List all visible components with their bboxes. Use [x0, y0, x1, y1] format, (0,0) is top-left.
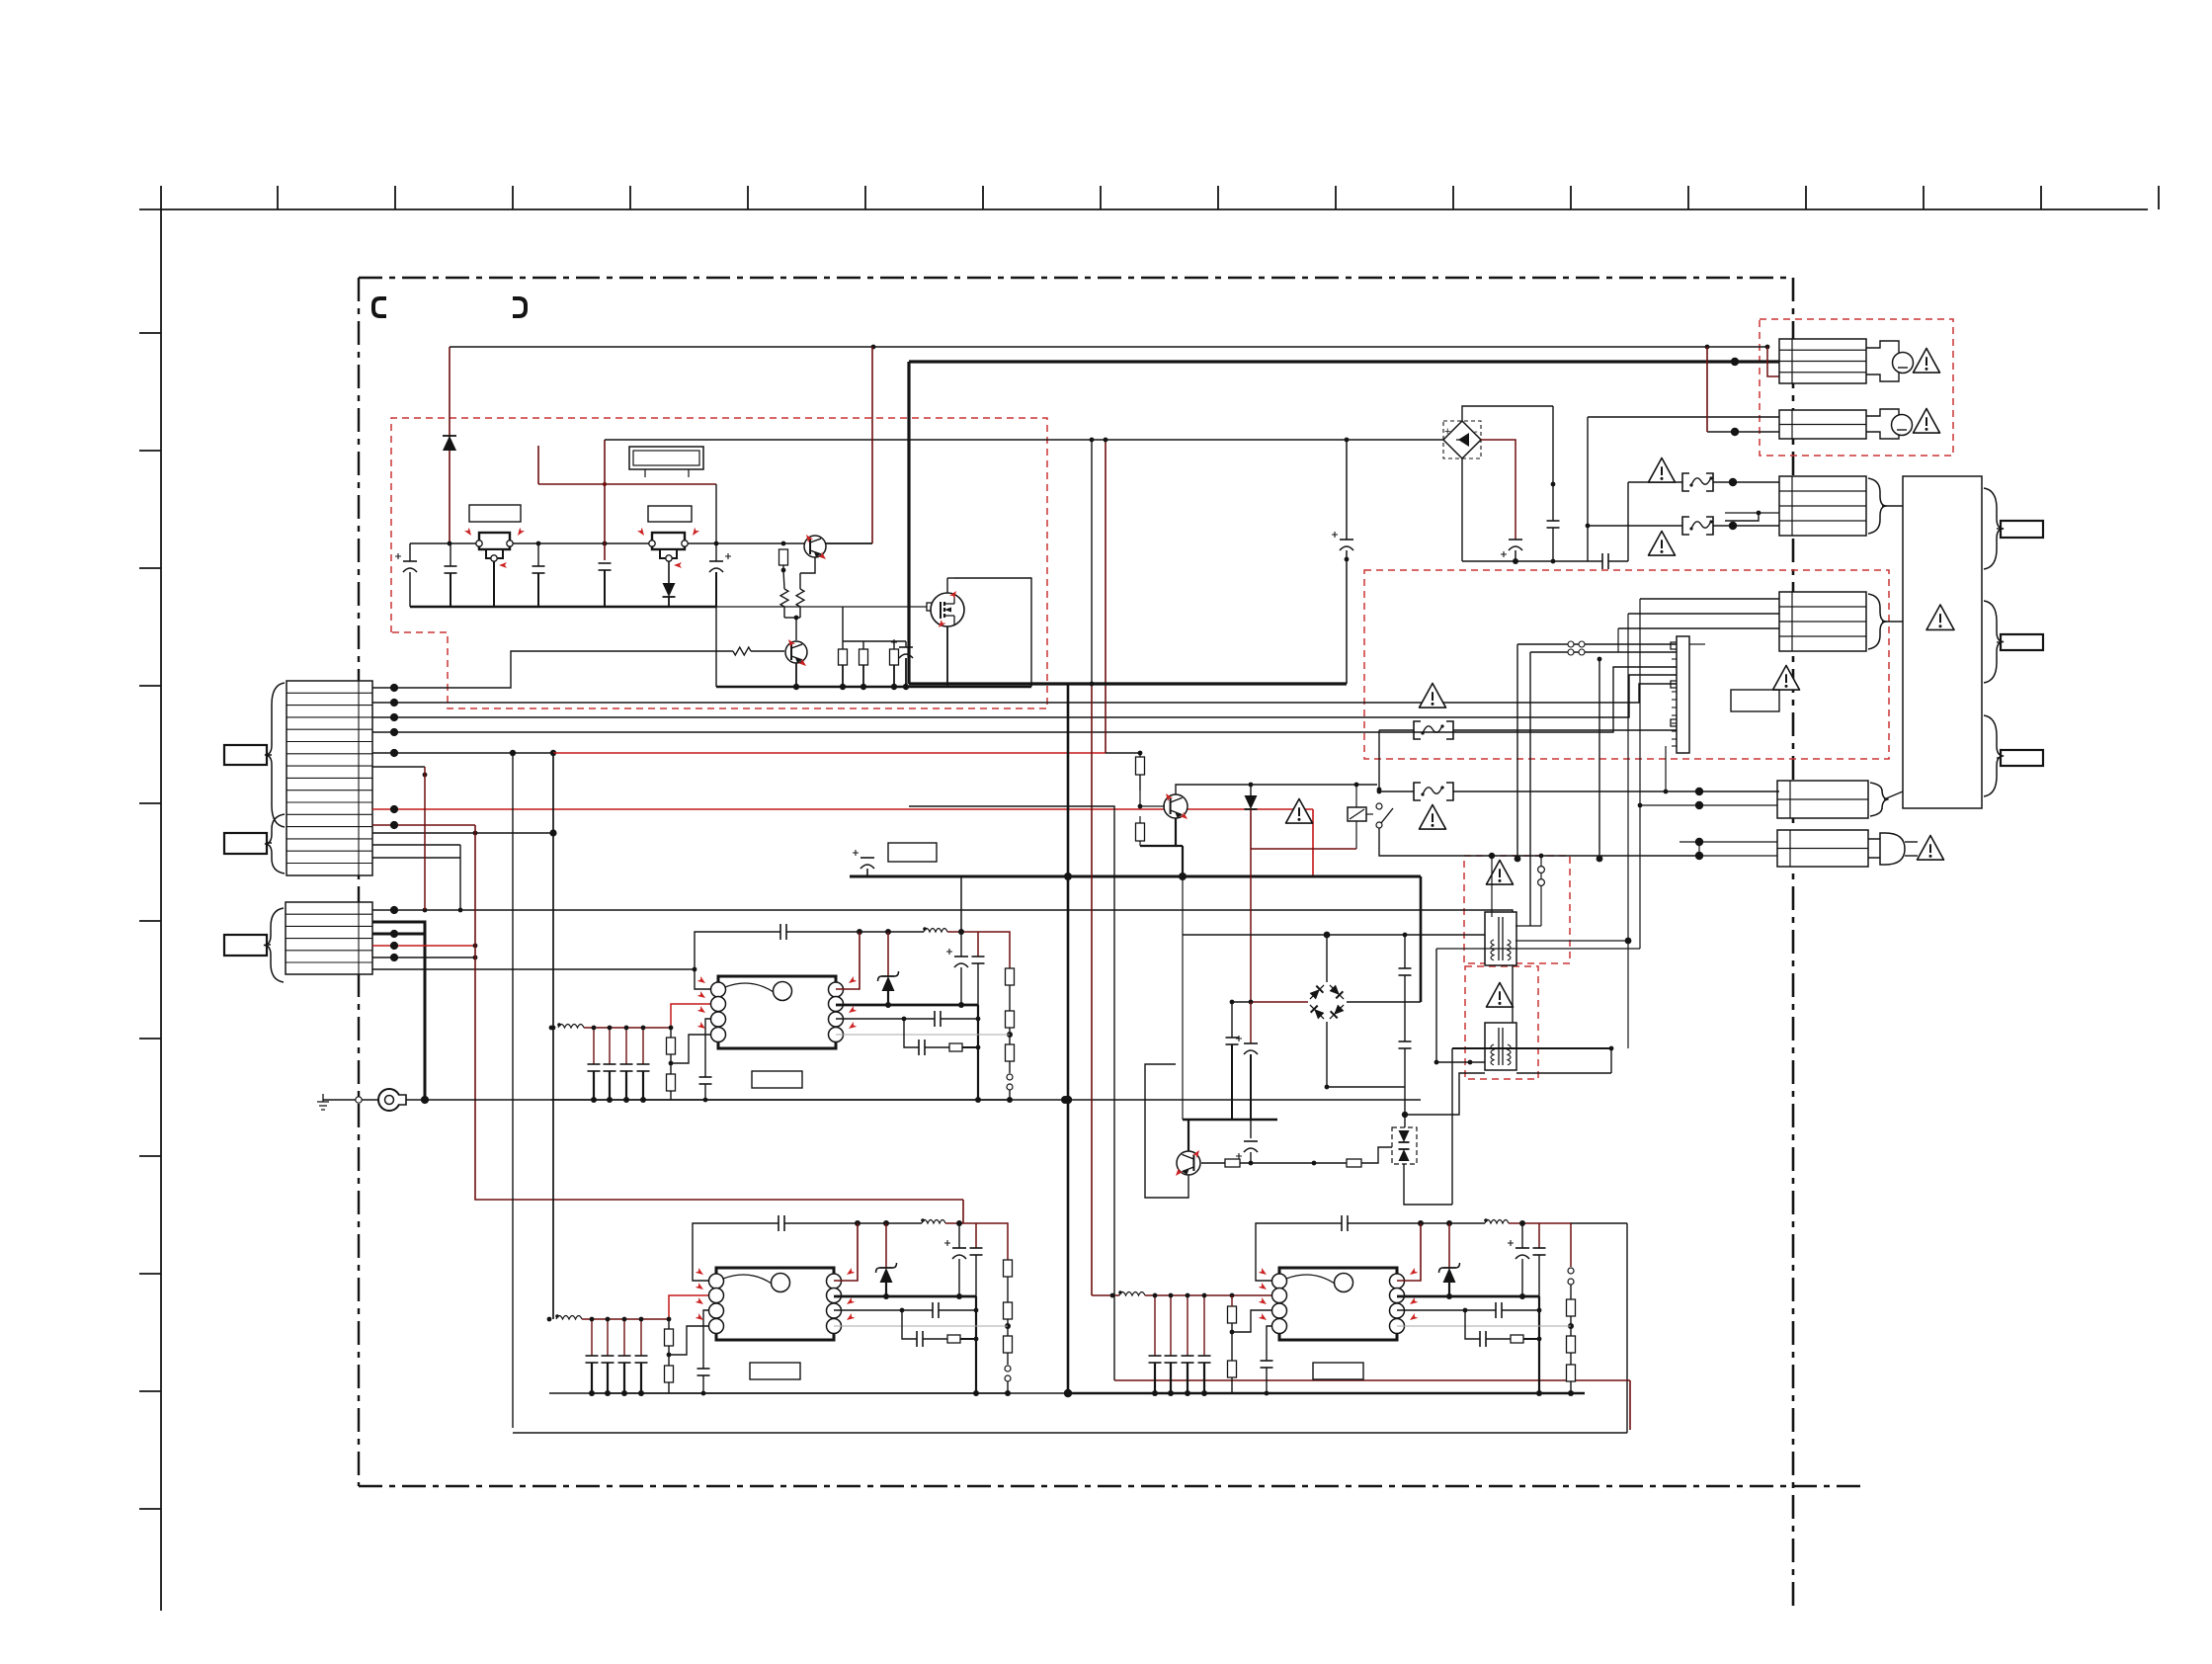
block B zener diode	[885, 1223, 887, 1268]
tab right 1	[2001, 521, 2043, 538]
block C loop capacitor	[1341, 1215, 1343, 1231]
wire thick y887 rail	[850, 875, 1421, 878]
block B filter capacitor bank	[591, 1319, 593, 1356]
block A pin1 loop wire	[695, 932, 780, 989]
wire comb rows J K stubs	[372, 844, 460, 846]
wire barrel2 row1 feed	[1588, 416, 1779, 418]
block A output electrolytic	[960, 932, 962, 957]
block A filter capacitor bank	[593, 1028, 595, 1064]
wire dark red comb row H	[372, 824, 475, 826]
block A input ferrite bead	[557, 1023, 561, 1027]
wire barrel3 to terminal strip	[1882, 505, 1903, 507]
wire barrel4 to terminal strip	[1882, 621, 1903, 623]
wire ground lead	[323, 1099, 378, 1101]
label box in box2	[1731, 690, 1779, 711]
relay coil SW	[1348, 807, 1373, 821]
block C bleeder chain dark red	[1539, 1223, 1571, 1267]
wire Q1 collector dark red riser	[871, 347, 873, 543]
wire red comb2 row 4	[372, 945, 475, 947]
fuse F2 in box2	[1379, 790, 1414, 792]
wire bridge right dark red drop	[1481, 440, 1516, 540]
electrolytic capacitor C1	[409, 543, 411, 561]
block A pin4R sense wire	[836, 1034, 1010, 1036]
block A loop capacitor	[779, 924, 781, 940]
block C zener diode	[1448, 1223, 1450, 1268]
block C resistor divider R lower	[1228, 1361, 1237, 1377]
block B pin3R wire with cap	[834, 1309, 933, 1311]
wire strip bottom drop	[1665, 746, 1667, 791]
resistor pair R2 R3	[780, 589, 788, 607]
tab right 2	[2001, 634, 2043, 650]
block C input ferrite bead	[1118, 1290, 1122, 1294]
connector barrel CN up-right 2	[1779, 410, 1866, 439]
box around MOSFET stage	[954, 578, 1031, 687]
wire riser into T1	[1491, 856, 1493, 917]
wire AC to barrel5 rows	[1699, 855, 1777, 857]
wire switch down and AC run	[1379, 828, 1699, 856]
block A zener diode	[887, 932, 889, 976]
wire barrel3 mid step	[1725, 513, 1759, 521]
wire transformer1 feed y946	[1183, 934, 1485, 936]
warning triangle fuse2	[1649, 532, 1676, 556]
wire bridge2 right to riser	[1347, 1001, 1421, 1003]
label box RY2	[648, 506, 692, 522]
wire top feed y351	[450, 346, 1767, 348]
brace comb upper rows	[265, 683, 285, 827]
electrolytic capacitor C10	[1250, 1120, 1252, 1138]
wire dark red riser x1728	[1706, 347, 1708, 432]
diode D3 protection	[1250, 785, 1252, 795]
wire comb row A to Q3 base	[372, 651, 733, 688]
wire Q4 collector to relay row	[1176, 785, 1377, 794]
brace terminal right 2	[1984, 601, 2004, 683]
block B input ferrite bead	[555, 1314, 559, 1318]
wire fuse row 1	[1628, 481, 1682, 483]
block C output ferrite	[1484, 1218, 1488, 1222]
wire thick riser x920	[907, 362, 910, 684]
wire rail drop from relay rail	[715, 607, 717, 687]
block C pin1 loop wire	[1256, 1223, 1342, 1281]
block B internal ground rail	[549, 1392, 1008, 1394]
wire T1 right bottom pin	[1516, 940, 1628, 942]
label box RY1	[469, 505, 521, 522]
warning triangle relay	[1286, 799, 1313, 824]
block A pin3R wire with cap	[836, 1018, 935, 1020]
red dashed box AC primary middle-right	[1364, 570, 1889, 759]
block C filter capacitor bank	[1154, 1295, 1156, 1356]
svg-text:+: +	[1444, 426, 1450, 438]
block B pin4 wire	[669, 1326, 710, 1355]
wire comb row I	[372, 832, 553, 834]
tab terminal 3	[224, 935, 267, 956]
connector barrel transformer secondary	[1779, 592, 1866, 651]
wire relay RY1 common down	[493, 561, 495, 607]
block A thick output rail	[836, 1004, 978, 1007]
transistor Q3	[785, 641, 807, 663]
block B pin4R sense wire	[834, 1325, 1008, 1327]
connector CN comb lower	[286, 902, 372, 974]
wire block C top rail extension	[1571, 1222, 1627, 1224]
warning triangle near strip	[1773, 666, 1800, 691]
wire strip riser x1536	[1516, 644, 1518, 859]
wire resistor bank top rail	[843, 640, 906, 642]
wire comb row B to connector bundle	[372, 684, 1677, 703]
wire y816 to x1128	[909, 806, 1114, 1380]
block A output ferrite	[923, 927, 927, 931]
open circle on boundary	[356, 1097, 362, 1103]
wire Q5 collector riser	[1182, 876, 1184, 935]
block C dark red riser pin1R	[1397, 1223, 1421, 1281]
wire relay coil drop	[1355, 785, 1357, 807]
wire riser x1081 long thick	[1067, 684, 1070, 1393]
wire red riser to thick rail	[1312, 809, 1314, 876]
wire dark red bridge2 feed	[1250, 849, 1252, 1002]
ground chassis symbol	[317, 1094, 329, 1110]
diode D1 on riser	[449, 347, 451, 543]
wire comb2 row 1 long	[372, 910, 1513, 1029]
wire riser x1454	[1435, 949, 1437, 1062]
block B pin3 wire and cap	[703, 1310, 710, 1369]
wire Q1 emitter down	[800, 557, 815, 573]
wire comb2 row 6	[372, 968, 695, 970]
relay transformer T1	[1485, 912, 1516, 965]
wire Q4 base	[1139, 790, 1141, 806]
wire riser x1105 block C feed	[1091, 440, 1093, 684]
wire Q3 emitter to rail	[795, 663, 797, 687]
crystal filter component	[629, 447, 703, 477]
section title bracket right	[513, 298, 526, 316]
transistor Q5	[1177, 1151, 1200, 1175]
wire thick drop x1197	[1182, 846, 1184, 876]
wire bottom return long	[513, 1432, 1627, 1434]
label box near relay stage	[888, 843, 937, 862]
power transformer terminal block	[1903, 476, 1982, 808]
shared ground rail bottom	[591, 1392, 1065, 1394]
electrolytic capacitor C9	[1250, 1002, 1252, 1043]
capacitor C2	[450, 543, 451, 566]
wire dark red riser x612	[604, 440, 606, 560]
wire bottom rail y568 with series cap	[1462, 560, 1602, 562]
block A pin3 wire and cap	[705, 1019, 712, 1077]
wire riser x519 to bottom return	[512, 753, 514, 1428]
wire MOSFET source down	[946, 626, 948, 687]
pin header strip	[1671, 636, 1689, 753]
gate resistor R8	[927, 603, 941, 611]
wire gate feed riser	[842, 607, 844, 641]
warning triangle below fuse2	[1420, 805, 1446, 830]
block A output cap	[977, 932, 979, 957]
wire comb row C to connector bundle	[372, 675, 1677, 717]
thick ground rail segment bottom right	[1065, 1392, 1585, 1394]
wire red riser x1650	[1629, 1380, 1631, 1430]
plug jack 1	[1866, 341, 1914, 381]
wire red comb row G long	[372, 808, 1313, 810]
block A feed riser to thick rail	[960, 876, 962, 932]
wire fuse row 2	[1588, 525, 1682, 527]
resistor R2 at diac	[1347, 1159, 1361, 1167]
wire thick rail y692	[909, 682, 1347, 685]
electrolytic capacitor C6	[905, 641, 907, 647]
wire T2 secondary top y1061	[1452, 1047, 1611, 1049]
block C top rail	[1348, 1222, 1485, 1224]
wire comb stub row F	[372, 766, 425, 768]
resistor bank R6	[860, 649, 868, 665]
resistor bank R7	[890, 649, 899, 665]
wire comb row D to connector bundle	[372, 667, 1677, 732]
relay transformer T2	[1485, 1023, 1516, 1070]
warning triangle fuse1	[1649, 458, 1676, 483]
wire red hook into barrel1	[1767, 347, 1779, 376]
ruler tick marks top	[278, 186, 2159, 209]
block C output riser down	[1538, 1296, 1540, 1393]
bottom rail of relay group	[410, 606, 716, 609]
warning triangle T2 box	[1487, 983, 1514, 1008]
block C pin3 wire	[1232, 1310, 1273, 1332]
capacitor C4	[599, 562, 612, 564]
block A output riser down	[977, 1005, 979, 1100]
wire barrel2 row2 feed	[1707, 431, 1779, 433]
wire thick riser x1438	[1420, 876, 1423, 1002]
wire riser x1363 with cap	[1346, 440, 1348, 540]
wire box around Q5	[1145, 1064, 1188, 1198]
block C pin4R sense wire	[1397, 1325, 1571, 1327]
wire bundle risers to barrel4	[1639, 599, 1641, 949]
red dashed box relay transformer 2	[1465, 966, 1538, 1079]
MOSFET Q2	[931, 589, 964, 629]
block C resistor divider R upper	[1228, 1306, 1237, 1323]
wire comb row E AC live	[372, 752, 553, 754]
section title bracket left	[373, 298, 386, 316]
wire bridge feed from x612	[605, 439, 1443, 441]
ring terminal ground lug	[378, 1089, 400, 1111]
resistor R1 at Q1 base	[779, 549, 788, 565]
wire diac bottom return	[1404, 1164, 1452, 1205]
brace terminal right 1	[1984, 488, 2004, 569]
bridge rectifier D902	[1306, 981, 1347, 1022]
wire Q5 base row	[1201, 1147, 1392, 1163]
wire comb2 rows 2-3 thick	[372, 922, 425, 934]
brace terminal right 3	[1984, 715, 2004, 796]
resistor above Q4	[1136, 757, 1145, 775]
block B pin1 loop wire	[693, 1223, 778, 1281]
warning triangle terminal block	[1926, 605, 1954, 629]
wire red feed stub to Q4 resistor	[1106, 752, 1140, 754]
wire strip riser x1619	[1598, 659, 1600, 859]
wire fuse feed riser x1648	[1627, 482, 1629, 561]
wire thick rail y366	[909, 360, 1779, 363]
block B loop capacitor	[778, 1215, 779, 1231]
capacitor C3	[537, 543, 539, 566]
connector barrel AC cord	[1777, 830, 1868, 867]
wire riser x1648 from bundle to T2 loop	[1627, 614, 1629, 1048]
block A internal ground rail	[551, 1099, 1010, 1101]
wire dark red riser x481 feed to block B/C	[475, 825, 963, 1200]
wire thick bar y1133	[1183, 1119, 1277, 1122]
block A resistor divider R upper	[667, 1038, 676, 1054]
ruler tick marks left	[139, 333, 161, 1509]
electrolytic capacitor C underneath	[1509, 539, 1522, 541]
block B output electrolytic	[958, 1223, 960, 1248]
wire strip right stub	[1689, 643, 1705, 645]
diode D2 under relay RY2	[668, 561, 670, 583]
warning triangle in box2 left	[1420, 684, 1446, 708]
wire MOSFET drain up	[946, 578, 948, 593]
page frame horizontal ruler line	[139, 208, 2148, 210]
resistor R at Q5	[1225, 1159, 1240, 1167]
switch contact	[1376, 803, 1382, 809]
block B dark red riser pin1R	[834, 1223, 858, 1281]
block B bleeder chain dark red	[976, 1223, 1008, 1260]
wire to Q3 collector	[795, 618, 797, 640]
wire main ground rail	[406, 1099, 1421, 1101]
block A snubber branch	[904, 1019, 919, 1047]
wire riser x1422 with caps	[1404, 935, 1406, 968]
brace comb upper lower rows	[265, 814, 285, 874]
AC plug	[1868, 833, 1918, 865]
block B resistor divider R upper	[665, 1329, 674, 1346]
block A IC body	[697, 976, 858, 1048]
wire fuse1 left riser	[1378, 730, 1380, 791]
resistor R4 zigzag at Q3 base	[733, 647, 751, 655]
wire comb2 row 5	[372, 957, 475, 958]
twisted pair wire 2	[1530, 651, 1677, 653]
wire dark red y1397	[1114, 1379, 1630, 1381]
transformer T2 wires	[1516, 1072, 1611, 1074]
wire red riser x430 comb stub to comb2	[424, 767, 426, 910]
block B top rail	[784, 1222, 922, 1224]
brace barrel3	[1868, 478, 1887, 534]
block C output cap	[1538, 1223, 1540, 1248]
wire Q4 emitter thick	[1140, 818, 1176, 846]
wire bridge top loop	[1462, 406, 1553, 421]
block B output riser down	[975, 1296, 977, 1393]
brace barrel6	[1870, 783, 1889, 816]
wire return riser x1647 to block C rail	[1626, 1223, 1628, 1433]
connector barrel transformer primary	[1779, 476, 1866, 536]
wire left cap branch	[1232, 1001, 1251, 1003]
block B thick output rail	[834, 1295, 976, 1298]
block B resistor divider R lower	[665, 1366, 674, 1382]
tab terminal 1	[224, 745, 267, 765]
block C input row to pin2	[1232, 1294, 1273, 1296]
block B IC body	[696, 1268, 856, 1340]
block C internal ground rail	[1112, 1392, 1571, 1394]
transistor Q4	[1164, 794, 1188, 818]
thick rail y695	[716, 686, 1031, 689]
warning triangle plug2	[1914, 409, 1940, 434]
tab right 3	[2001, 750, 2043, 766]
page frame vertical ruler line	[160, 186, 162, 1611]
block C output electrolytic	[1521, 1223, 1523, 1248]
test point circles on riser x1560	[1540, 856, 1542, 926]
wire thick riser x430 to ground rail	[424, 922, 427, 1100]
wire dark red y859	[1251, 848, 1356, 850]
brace comb lower	[264, 908, 284, 982]
wire riser x1572 with cap	[1552, 406, 1554, 521]
wire strip riser x1549	[1529, 652, 1531, 926]
fuse F1 in box2	[1379, 729, 1414, 731]
block C thick output rail	[1397, 1295, 1539, 1298]
wire T2 lower left	[1405, 1073, 1485, 1115]
red dashed box relay transformer 1	[1464, 856, 1570, 963]
brace barrel4	[1868, 594, 1887, 649]
capacitor C8	[1231, 1002, 1233, 1038]
wire dark red feed drop to block B	[962, 1200, 964, 1223]
connector CN comb upper	[287, 681, 372, 875]
svg-text:-: -	[1474, 426, 1478, 438]
wire riser x1470 to T2 loop	[1451, 1048, 1453, 1205]
wire strip riser x1660 to barrel4	[1640, 598, 1779, 600]
block C pin3R wire with cap	[1397, 1309, 1496, 1311]
wire riser x1607	[1587, 417, 1589, 561]
block C pin4 wire and cap	[1267, 1326, 1273, 1361]
diac bidirectional diode	[1392, 1127, 1417, 1164]
warning triangle plug1	[1914, 349, 1940, 374]
wire T1 right top pin	[1516, 925, 1541, 927]
block B output ferrite	[921, 1218, 925, 1222]
block B output cap	[975, 1223, 977, 1248]
wire relay supply row y550	[410, 542, 872, 544]
block A resistor divider R lower	[667, 1074, 676, 1091]
block C snubber branch	[1465, 1310, 1480, 1339]
block A bleeder chain dark red	[978, 932, 1010, 968]
resistor bank R5	[839, 649, 848, 665]
twisted pair wire 1	[1517, 643, 1677, 645]
red dashed box speaker outputs top-right	[1760, 319, 1953, 456]
block B red riser to pin2	[669, 1295, 710, 1319]
wire T1 riser x1631	[1610, 1048, 1612, 1073]
red dashed box power control block top-left	[391, 418, 1047, 708]
wire bridge bottom drop	[1461, 458, 1463, 561]
wire y960 from bundle	[1436, 948, 1640, 950]
block A pin4 wire	[671, 1035, 712, 1063]
block C label box	[1313, 1363, 1363, 1379]
block A dark red riser pin1R	[836, 932, 860, 989]
wire bridge2 top riser	[1326, 935, 1328, 982]
wire barrel6 row2 feed	[1640, 804, 1777, 806]
resistor below Q4 base	[1136, 823, 1145, 841]
relay RY1	[464, 528, 525, 568]
warning triangle T1 box	[1487, 861, 1514, 885]
electrolytic capacitor C7 on rail	[860, 857, 874, 859]
wire black riser x725	[715, 484, 717, 544]
wire barrel6 to terminal strip	[1884, 791, 1903, 799]
warning triangle AC plug	[1918, 836, 1944, 861]
wire bridge2 bottom	[1327, 1022, 1405, 1087]
wire riser x560 block A/B input feed	[552, 753, 554, 1319]
wire x1422 to diac	[1404, 1115, 1406, 1127]
bridge rectifier D901	[1443, 421, 1481, 458]
chassis boundary dash-dot box	[359, 278, 1861, 1611]
block C IC body	[1259, 1268, 1419, 1340]
block B snubber branch	[902, 1310, 917, 1339]
electrolytic capacitor C5	[715, 544, 717, 561]
connector barrel mains out	[1777, 781, 1868, 818]
block B label box	[750, 1363, 800, 1379]
wire T2 left pin	[1436, 1061, 1485, 1063]
connector barrel CN up-right 1	[1779, 339, 1866, 383]
tab terminal 2	[224, 833, 267, 854]
wire red AC feed to bridge	[553, 752, 1106, 754]
wire dark red crystal link	[537, 446, 539, 484]
plug jack 2	[1866, 409, 1913, 439]
relay RY2	[637, 528, 699, 568]
block A label box	[752, 1071, 802, 1088]
transistor Q1	[804, 536, 826, 557]
block A top rail	[786, 931, 924, 933]
block A red riser to pin2	[671, 1004, 712, 1028]
